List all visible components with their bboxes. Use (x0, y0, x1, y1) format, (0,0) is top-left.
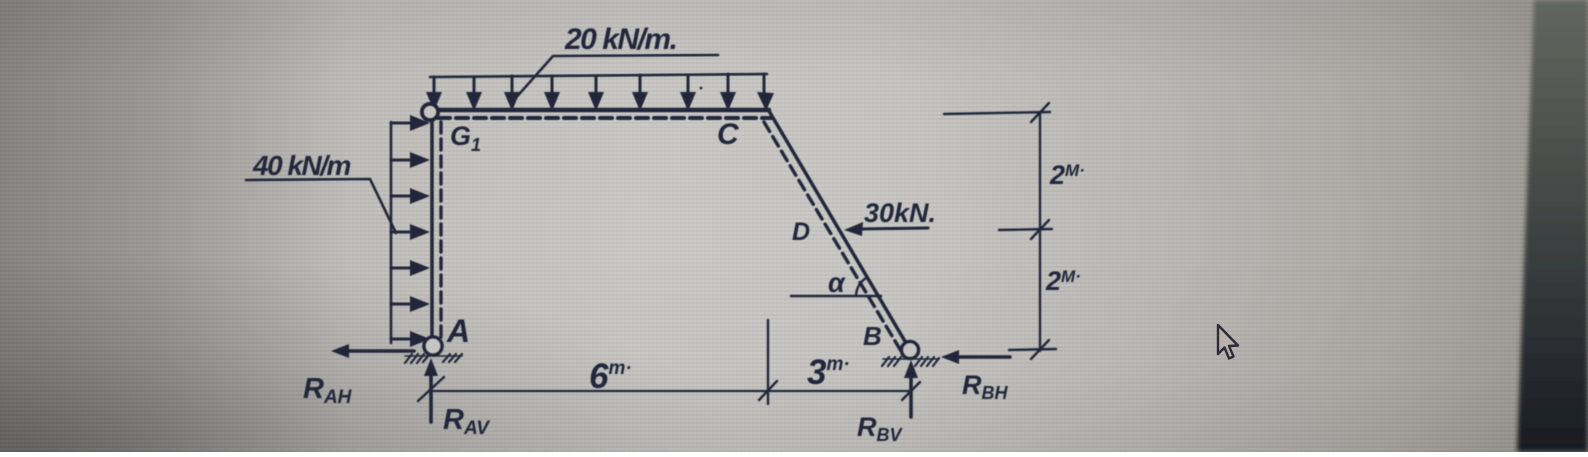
beam member dashed axis (438, 116, 772, 120)
angle alpha arc (856, 278, 866, 296)
dimension tick at A (slash) (418, 377, 444, 401)
svg-text:D: D (792, 218, 810, 246)
right dimension bottom tick (1009, 349, 1056, 350)
beam member G1-C (solid axis line) (427, 108, 769, 113)
dimension middle tick vertical (767, 320, 769, 404)
distributed load 40 kN/m left line (390, 122, 393, 343)
reaction arrow RAV (429, 370, 433, 422)
diagonal member dashed axis (764, 122, 901, 351)
diagonal member C-B (solid axis line) (769, 111, 906, 343)
svg-text:20 kN/m.: 20 kN/m. (564, 23, 676, 56)
force 30 kN arrow (860, 228, 928, 229)
svg-text:C: C (717, 118, 740, 151)
distributed load 20 kN/m arrows (434, 74, 764, 95)
bottom dimension line A to B (433, 390, 911, 392)
dark screen edge band right (1517, 0, 1588, 452)
support A pin circle (424, 337, 442, 355)
svg-text:α: α (828, 268, 846, 298)
right dimension middle tick (999, 229, 1052, 230)
svg-text:A: A (446, 313, 470, 349)
hinge G1 circle (422, 104, 438, 120)
support A ground hatching (405, 354, 462, 363)
reaction arrow RBV (909, 372, 913, 417)
right dimension vertical line (1039, 113, 1041, 351)
svg-text:30kN.: 30kN. (864, 198, 936, 228)
reaction arrow RBH (956, 355, 1010, 359)
column member dashed axis (439, 122, 442, 341)
dimension tick at B (slash) (902, 382, 920, 400)
leader line 20 kN/m (513, 55, 718, 101)
angle alpha reference line (791, 295, 881, 298)
distributed load 40 kN/m arrows (391, 123, 412, 339)
column member A-G1 (solid axis line) (430, 117, 434, 339)
svg-text:40 kN/m: 40 kN/m (252, 150, 350, 181)
ink speck (699, 86, 702, 89)
support B pin circle (902, 342, 919, 359)
dimension tick middle (slash) (759, 381, 777, 400)
right dimension top tick (944, 112, 1050, 114)
mouse cursor (1218, 325, 1238, 359)
reaction arrow RAH (345, 349, 414, 353)
support B ground hatching (882, 357, 939, 366)
leader line 40 kN/m (246, 179, 396, 233)
distributed load 20 kN/m top line (430, 74, 767, 77)
svg-text:B: B (863, 321, 882, 351)
